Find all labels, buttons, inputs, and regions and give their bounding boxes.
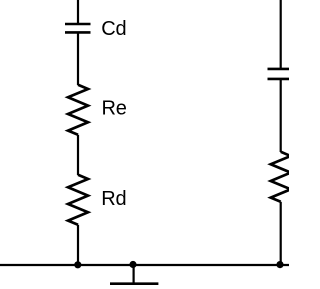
svg-text:Rd: Rd: [101, 188, 126, 210]
svg-text:Re: Re: [102, 98, 127, 120]
svg-text:Cd: Cd: [101, 18, 126, 40]
